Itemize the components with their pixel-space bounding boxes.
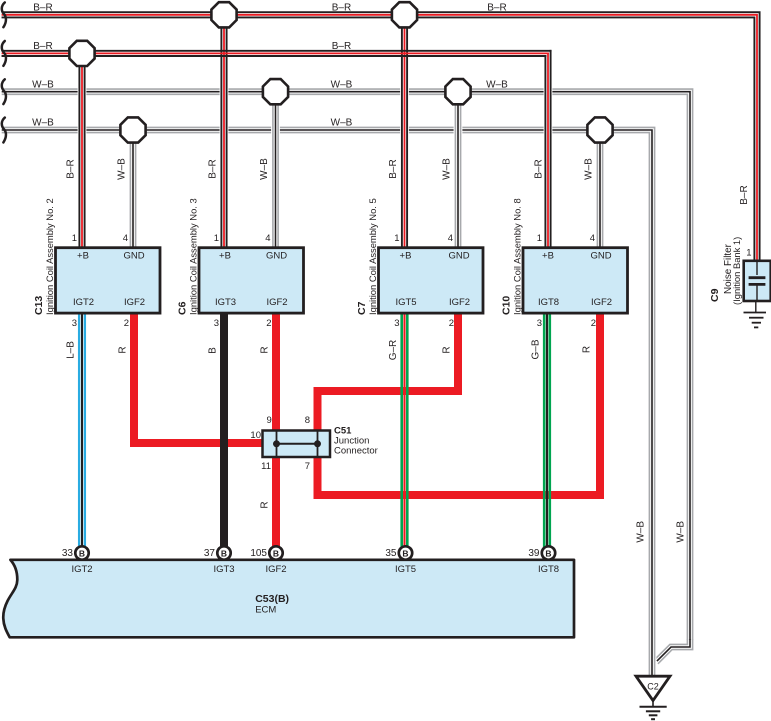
junction node F on bus4 x133 (120, 117, 145, 142)
svg-text:GND: GND (266, 250, 287, 261)
svg-text:R: R (117, 346, 128, 353)
svg-text:W–B: W–B (584, 158, 595, 180)
svg-text:W–B: W–B (442, 158, 453, 180)
svg-text:R: R (260, 501, 271, 508)
wire W-B drop to C6 GND (273, 92, 278, 249)
svg-text:B–R: B–R (534, 159, 545, 178)
svg-text:R: R (582, 346, 593, 353)
svg-text:Ignition Coil Assembly No. 8: Ignition Coil Assembly No. 8 (512, 198, 523, 315)
svg-text:W–B: W–B (117, 158, 128, 180)
junction node D on bus3 x275 (263, 79, 288, 104)
ground C2 triangle (636, 676, 670, 700)
svg-text:IGT2: IGT2 (71, 564, 92, 575)
svg-text:GND: GND (123, 250, 144, 261)
ECM pin 105 (IGF2) (269, 546, 282, 559)
wire W-B drop to C7 GND (455, 92, 460, 249)
C51 label (334, 426, 378, 457)
svg-text:W–B: W–B (676, 521, 687, 543)
ECM C53(B) box (3, 560, 574, 638)
wire G-B C10-IGT8 to ECM 39 (544, 313, 550, 547)
ignition coil C13 (Ignition Coil Assembly No. 2) (56, 248, 161, 313)
ECM pin 33 (IGT2) (75, 546, 88, 559)
wire-continues break symbol line 1 (2, 2, 6, 27)
wire W-B bus 3 (3, 89, 693, 642)
svg-text:R: R (442, 346, 453, 353)
wire L-B C13-IGT2 to ECM 33 (79, 313, 85, 547)
svg-text:3: 3 (394, 318, 399, 329)
wire B-R drop to C6 +B (221, 15, 226, 249)
svg-text:W–B: W–B (32, 79, 54, 90)
svg-text:G–B: G–B (531, 339, 542, 359)
svg-text:B: B (79, 548, 85, 558)
svg-text:10: 10 (250, 430, 261, 441)
svg-text:2: 2 (266, 318, 271, 329)
wire-continues break symbol line 2 (2, 41, 6, 66)
svg-text:1: 1 (72, 233, 77, 244)
svg-text:4: 4 (590, 233, 595, 244)
svg-text:IGT8: IGT8 (538, 297, 559, 308)
svg-text:3: 3 (537, 318, 542, 329)
C9 label (709, 237, 742, 305)
junction node A on bus1 x224 (211, 2, 236, 27)
svg-text:8: 8 (305, 415, 310, 426)
ignition coil C7 (Ignition Coil Assembly No. 5) (379, 248, 484, 313)
ignition coil C6 (Ignition Coil Assembly No. 3) (199, 248, 304, 313)
svg-text:9: 9 (267, 415, 272, 426)
ignition coil C10 (Ignition Coil Assembly No. 8) (523, 248, 628, 313)
wire R C13-IGF2 to C51 pin10 (134, 313, 263, 443)
svg-text:L–B: L–B (66, 341, 77, 359)
svg-text:B–R: B–R (332, 41, 351, 52)
svg-text:105: 105 (250, 548, 267, 559)
wire W-B bus 4 (3, 127, 655, 676)
svg-text:W–B: W–B (331, 79, 353, 90)
ECM pin 39 (IGT8) (542, 546, 555, 559)
junction node E on bus3 x458 (445, 79, 470, 104)
svg-text:IGF2: IGF2 (591, 297, 612, 308)
junction node G on bus4 x600 (587, 117, 612, 142)
noise filter C9 (capacitor) (744, 261, 771, 301)
svg-text:G–R: G–R (388, 340, 399, 361)
svg-text:7: 7 (305, 461, 310, 472)
svg-text:IGT5: IGT5 (395, 564, 416, 575)
svg-text:B–R: B–R (487, 2, 506, 13)
svg-text:3: 3 (214, 318, 219, 329)
junction node B on bus1 x404 (392, 2, 417, 27)
svg-text:B–R: B–R (388, 159, 399, 178)
svg-text:B–R: B–R (33, 41, 52, 52)
svg-text:ECM: ECM (255, 605, 276, 616)
svg-text:GND: GND (448, 250, 469, 261)
svg-text:4: 4 (265, 233, 270, 244)
wire-continues break symbol line 4 (2, 118, 6, 143)
svg-text:IGT2: IGT2 (73, 297, 94, 308)
wire B-R drop to C7 +B (402, 15, 407, 249)
svg-text:IGT3: IGT3 (215, 297, 236, 308)
svg-text:1: 1 (746, 247, 751, 258)
svg-text:35: 35 (385, 548, 397, 559)
svg-text:B–R: B–R (332, 2, 351, 13)
svg-text:+B: +B (542, 250, 554, 261)
svg-text:4: 4 (448, 233, 453, 244)
svg-text:2: 2 (591, 318, 596, 329)
svg-text:IGF2: IGF2 (124, 297, 145, 308)
svg-text:Ignition Coil Assembly No. 3: Ignition Coil Assembly No. 3 (188, 198, 199, 315)
ECM pin 37 (IGT3) (217, 546, 230, 559)
svg-text:33: 33 (62, 548, 74, 559)
svg-text:37: 37 (204, 548, 216, 559)
wire B-R bus 1 (3, 12, 760, 261)
svg-text:+B: +B (77, 250, 89, 261)
svg-text:Connector: Connector (334, 445, 378, 456)
ground below C9 (744, 301, 767, 327)
svg-text:B–R: B–R (66, 159, 77, 178)
wire B-R bus 2 (3, 51, 551, 56)
wire W-B drop to C13 GND (130, 130, 135, 249)
wire R C7-IGF2 to C51 pin8 (318, 313, 459, 433)
svg-text:B: B (273, 548, 279, 558)
svg-text:IGF2: IGF2 (265, 564, 286, 575)
svg-text:IGF2: IGF2 (449, 297, 470, 308)
wire W-B bus 3 merge tail (657, 640, 693, 663)
svg-text:C53(B): C53(B) (255, 593, 289, 605)
svg-text:B: B (221, 548, 227, 558)
svg-text:W–B: W–B (32, 118, 54, 129)
svg-text:Ignition Coil Assembly No. 2: Ignition Coil Assembly No. 2 (44, 198, 55, 315)
svg-text:1: 1 (394, 233, 399, 244)
svg-text:Ignition Coil Assembly No. 5: Ignition Coil Assembly No. 5 (367, 198, 378, 315)
ground hatching below C2 (640, 700, 667, 719)
svg-text:W–B: W–B (331, 118, 353, 129)
svg-text:C2: C2 (647, 682, 659, 692)
wire-continues break symbol line 3 (2, 79, 6, 104)
svg-text:B: B (545, 548, 551, 558)
svg-text:39: 39 (528, 548, 540, 559)
svg-text:B: B (208, 347, 219, 354)
svg-text:B–R: B–R (208, 159, 219, 178)
ECM pin 35 (IGT5) (399, 546, 412, 559)
svg-text:IGF2: IGF2 (266, 297, 287, 308)
svg-text:B–R: B–R (739, 185, 750, 204)
junction node C on bus2 x82 (69, 41, 94, 66)
svg-text:3: 3 (72, 318, 77, 329)
svg-text:1: 1 (214, 233, 219, 244)
svg-text:IGT3: IGT3 (213, 564, 234, 575)
svg-text:W–B: W–B (486, 79, 508, 90)
svg-text:W–B: W–B (636, 521, 647, 543)
svg-text:IGT8: IGT8 (538, 564, 559, 575)
svg-text:1: 1 (537, 233, 542, 244)
svg-text:+B: +B (219, 250, 231, 261)
wire B-R drop to C13 +B (79, 53, 84, 249)
svg-text:2: 2 (449, 318, 454, 329)
svg-text:R: R (260, 346, 271, 353)
junction connector C51 (263, 431, 331, 458)
svg-text:2: 2 (124, 318, 129, 329)
svg-text:4: 4 (123, 233, 128, 244)
wire B C6-IGT3 to ECM 37 (220, 313, 228, 547)
wire G-R C7-IGT5 to ECM 35 (402, 313, 408, 547)
svg-text:B–R: B–R (33, 2, 52, 13)
svg-text:11: 11 (261, 461, 271, 472)
wire B-R drop to C10 +B (545, 51, 550, 249)
wire R C10-IGF2 to C51 pin7 (318, 313, 601, 495)
svg-text:GND: GND (590, 250, 611, 261)
wire R C6-IGF2 through C51 pins 9-11 to ECM 105 (272, 313, 280, 547)
svg-text:C9: C9 (709, 288, 721, 302)
svg-text:+B: +B (400, 250, 412, 261)
svg-text:W–B: W–B (259, 158, 270, 180)
svg-text:IGT5: IGT5 (395, 297, 416, 308)
svg-text:B: B (402, 548, 408, 558)
svg-text:(Ignition Bank 1): (Ignition Bank 1) (731, 237, 742, 305)
wire W-B drop to C10 GND (597, 130, 602, 249)
